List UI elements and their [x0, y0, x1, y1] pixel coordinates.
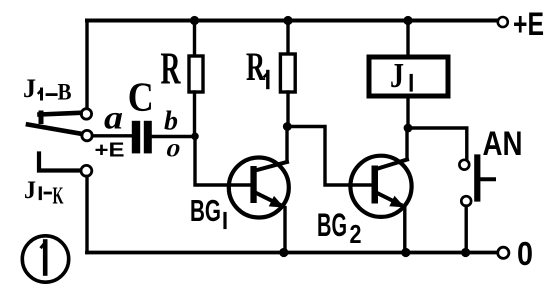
- svg-text:K: K: [53, 184, 64, 210]
- svg-text:R: R: [246, 44, 266, 89]
- node AN / rail: [461, 248, 470, 257]
- wire BG1 collector up: [285, 127, 288, 163]
- svg-text:+E: +E: [95, 140, 125, 162]
- wire bottom rail: [87, 251, 497, 255]
- svg-text:0: 0: [166, 141, 181, 162]
- wire BG2 collector up: [405, 128, 408, 160]
- svg-text:b: b: [164, 106, 178, 136]
- node top rail / R1: [283, 16, 292, 25]
- relay contact J1-B: [23, 74, 92, 141]
- wire AN to bottom rail: [465, 206, 468, 253]
- svg-text:J: J: [390, 56, 404, 95]
- svg-text:J: J: [23, 74, 36, 103]
- wire J1-K to bottom rail: [85, 177, 88, 253]
- terminal 0: [498, 235, 533, 272]
- wire top rail: [87, 19, 497, 23]
- wire node to AN: [408, 128, 467, 160]
- node below J1: [404, 124, 413, 133]
- wire BG1 emitter drop: [283, 208, 286, 253]
- node b junction: [191, 133, 199, 141]
- wire contact to capacitor: [93, 134, 132, 137]
- wire BG2 emitter drop: [403, 207, 406, 252]
- node top rail / J1: [403, 16, 412, 25]
- capacitor C: [95, 74, 181, 162]
- wire node to BG2 base: [287, 127, 350, 186]
- svg-text:0: 0: [517, 235, 533, 272]
- relay contact J1-K: [24, 154, 92, 210]
- resistor R: [161, 21, 204, 137]
- svg-text:BG: BG: [317, 207, 347, 243]
- transistor BG1: [190, 158, 289, 229]
- svg-text:a: a: [104, 101, 123, 137]
- terminal +E: [498, 6, 544, 42]
- node top rail / R: [190, 16, 199, 25]
- node BG2 emitter / rail: [401, 248, 410, 257]
- svg-text:+E: +E: [513, 6, 544, 42]
- wire left drop: [85, 21, 88, 109]
- svg-text:AN: AN: [483, 125, 523, 163]
- svg-text:BG: BG: [190, 193, 221, 228]
- node BG1 emitter / rail: [279, 248, 288, 257]
- transistor BG2: [317, 156, 412, 249]
- svg-text:2: 2: [350, 219, 362, 249]
- wire node b to BG1 base: [195, 136, 229, 185]
- resistor R1: [246, 21, 295, 127]
- push button AN: [459, 125, 522, 206]
- figure number 1: [22, 236, 68, 282]
- svg-text:J: J: [24, 177, 36, 204]
- svg-text:C: C: [128, 74, 154, 120]
- wire capacitor to node b: [152, 135, 195, 138]
- relay coil J1: [369, 21, 448, 129]
- svg-text:R: R: [161, 44, 181, 94]
- node below R1: [283, 122, 292, 131]
- svg-text:B: B: [58, 80, 72, 105]
